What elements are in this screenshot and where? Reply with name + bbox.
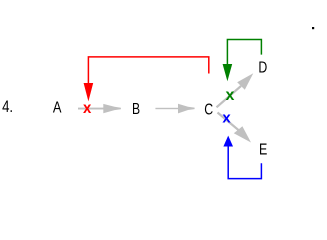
svg-text:A: A bbox=[53, 100, 62, 117]
svg-text:x: x bbox=[222, 109, 231, 126]
red inhibition wire from C to A-B arrow bbox=[84, 57, 209, 102]
svg-text:4.: 4. bbox=[2, 97, 13, 116]
svg-text:C: C bbox=[204, 102, 213, 119]
svg-text:x: x bbox=[83, 100, 91, 117]
green inhibition wire from D to C-D arrow bbox=[223, 40, 262, 82]
stray dot top right bbox=[312, 27, 314, 29]
wire arrow A to B (gray) bbox=[78, 104, 121, 113]
blue inhibition wire from E to C-E arrow bbox=[223, 136, 261, 179]
wire arrow B to C (gray) bbox=[155, 104, 194, 114]
wire arrow C to E (gray diagonal) bbox=[218, 113, 252, 143]
wire arrow C to D (gray diagonal) bbox=[217, 73, 254, 107]
svg-text:D: D bbox=[258, 59, 267, 76]
svg-text:B: B bbox=[132, 101, 140, 118]
svg-text:E: E bbox=[259, 142, 267, 159]
svg-text:x: x bbox=[226, 87, 235, 104]
